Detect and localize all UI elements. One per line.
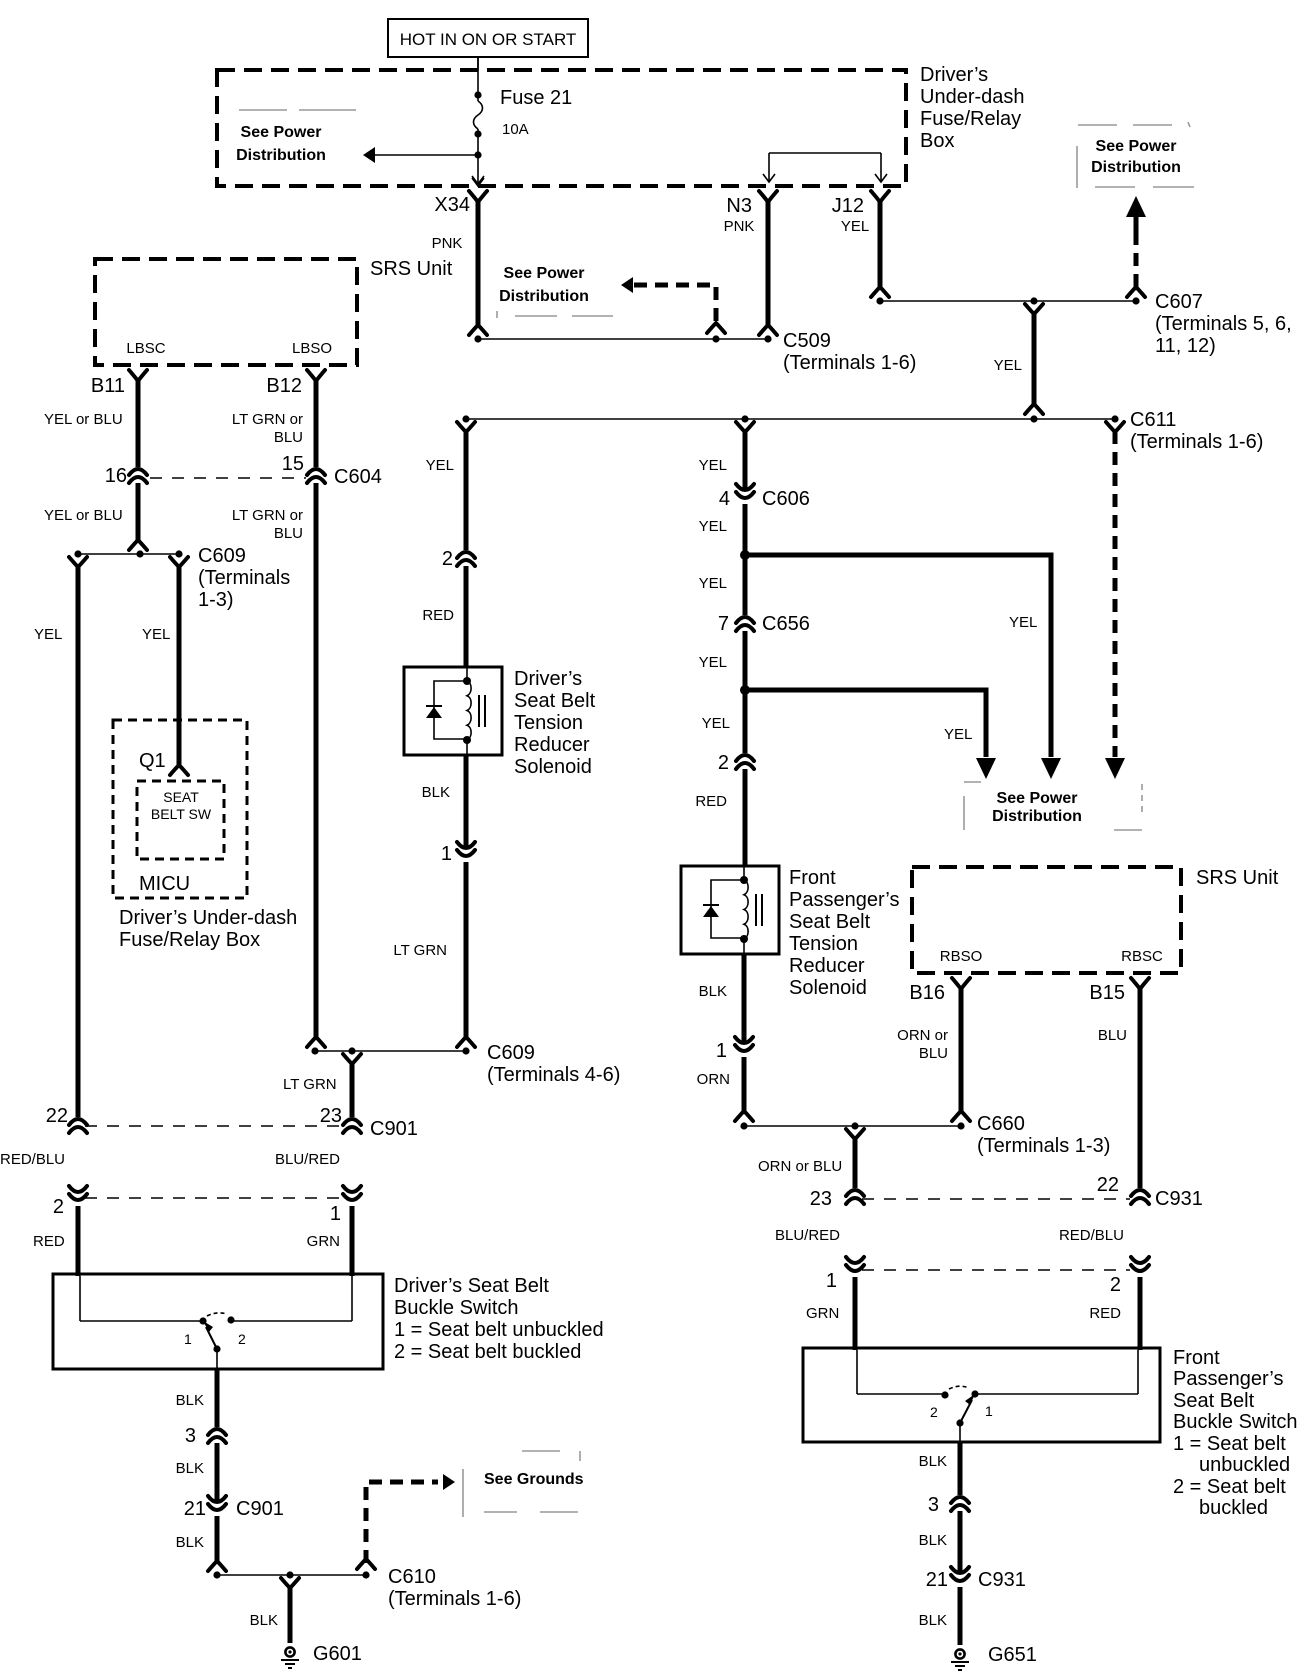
connector C656 pin 7: [718, 613, 810, 635]
svg-text:Reducer: Reducer: [789, 955, 865, 977]
svg-text:2: 2: [442, 548, 453, 570]
connector C607 node line: [876, 287, 1291, 357]
svg-text:GRN: GRN: [806, 1305, 839, 1322]
chevron J12 wire end at C607: [871, 287, 889, 297]
svg-text:1 = Seat belt unbuckled: 1 = Seat belt unbuckled: [394, 1319, 604, 1341]
svg-text:BLK: BLK: [919, 1612, 947, 1629]
svg-text:RED: RED: [422, 607, 454, 624]
svg-text:11, 12): 11, 12): [1155, 335, 1216, 357]
svg-text:Driver’s: Driver’s: [514, 668, 582, 690]
label SEAT BELT SW: [151, 789, 212, 822]
svg-text:1: 1: [716, 1040, 727, 1062]
label Front Passenger's Seat Belt Buckle Switch: [1173, 1347, 1298, 1519]
wire ORN or BLU to C931: [758, 1129, 864, 1188]
svg-text:7: 7: [718, 613, 729, 635]
connector C604 pin 16: [105, 465, 147, 487]
svg-text:RED: RED: [695, 793, 727, 810]
svg-text:RED: RED: [33, 1233, 65, 1250]
label BLU/RED (front): [775, 1227, 840, 1244]
label See Power Distribution (top right): [1091, 138, 1181, 176]
svg-text:Fuse/Relay Box: Fuse/Relay Box: [119, 929, 260, 951]
svg-text:BLK: BLK: [699, 983, 727, 1000]
wire BLK to G601: [250, 1578, 299, 1643]
label RED (front): [1089, 1305, 1121, 1322]
svg-text:B16: B16: [909, 982, 945, 1004]
wire 16 YEL or BLU (lower): [44, 483, 147, 550]
svg-text:C656: C656: [762, 613, 810, 635]
svg-text:G651: G651: [988, 1644, 1037, 1666]
wire RED into switch: [76, 1206, 81, 1276]
ghost reference marks (see grounds): [463, 1451, 580, 1517]
svg-text:1: 1: [441, 843, 452, 865]
dashed wire to See Power Distribution (mid): [621, 277, 725, 333]
connector pin 2 (driver row2): [53, 1186, 87, 1218]
switch position labels 1 2 (driver): [184, 1331, 246, 1347]
svg-text:LT GRN or: LT GRN or: [232, 507, 303, 524]
svg-text:BLK: BLK: [422, 784, 450, 801]
svg-text:RED: RED: [1089, 1305, 1121, 1322]
svg-text:C901: C901: [370, 1118, 418, 1140]
svg-text:Q1: Q1: [139, 750, 166, 772]
svg-text:Solenoid: Solenoid: [514, 756, 592, 778]
wire YEL (below C656): [699, 631, 745, 690]
connector C660 node line: [740, 1113, 1110, 1157]
svg-text:Seat Belt: Seat Belt: [1173, 1390, 1255, 1412]
wire YEL to Q1: [142, 557, 188, 775]
svg-text:BLU: BLU: [274, 525, 303, 542]
connector C611 node line: [462, 409, 1263, 453]
svg-text:1-3): 1-3): [198, 589, 234, 611]
svg-text:21: 21: [184, 1498, 206, 1520]
ground G601: [281, 1643, 362, 1668]
junction and branch YEL to power dist 2: [740, 685, 996, 779]
svg-text:C609: C609: [487, 1042, 535, 1064]
svg-text:Tension: Tension: [514, 712, 583, 734]
wire YEL (left tall): [34, 557, 87, 1117]
wire BLK (front lower): [919, 1587, 960, 1645]
svg-text:G601: G601: [313, 1643, 362, 1665]
svg-text:YEL or BLU: YEL or BLU: [44, 411, 123, 428]
connector C901 pin 21: [184, 1496, 284, 1520]
svg-text:YEL: YEL: [142, 626, 170, 643]
connector C606 pin 4: [719, 484, 810, 510]
pin label RBSO: [940, 948, 983, 965]
svg-text:10A: 10A: [502, 121, 529, 138]
svg-text:LT GRN: LT GRN: [393, 942, 447, 959]
connector C609 (terminals 1-3) node line: [74, 545, 290, 611]
svg-text:1: 1: [184, 1331, 192, 1347]
svg-text:PNK: PNK: [724, 218, 755, 235]
svg-text:YEL: YEL: [699, 654, 727, 671]
svg-text:YEL: YEL: [699, 575, 727, 592]
svg-text:2: 2: [238, 1331, 246, 1347]
svg-text:(Terminals 1-6): (Terminals 1-6): [1130, 431, 1263, 453]
svg-text:RED/BLU: RED/BLU: [0, 1151, 65, 1168]
terminal B12: [266, 370, 325, 397]
svg-text:Buckle Switch: Buckle Switch: [394, 1297, 519, 1319]
pin label RBSC: [1121, 948, 1163, 965]
svg-text:23: 23: [320, 1105, 342, 1127]
svg-text:LT GRN: LT GRN: [283, 1076, 337, 1093]
pin label LBSC: [126, 340, 165, 357]
svg-text:Tension: Tension: [789, 933, 858, 955]
connector C604 pin 15: [282, 453, 325, 483]
wire RED (front): [695, 769, 745, 866]
svg-text:BLK: BLK: [919, 1453, 947, 1470]
driver's seat belt buckle switch box: [53, 1274, 383, 1369]
driver buckle switch internals: [80, 1276, 352, 1369]
connector C604 dashed link: [150, 477, 306, 479]
svg-text:B11: B11: [91, 375, 125, 397]
wire GRN into switch: [350, 1206, 355, 1276]
svg-text:B12: B12: [266, 375, 302, 397]
label See Power Distribution (bottom right): [992, 790, 1082, 825]
connector pin 3 (front): [928, 1494, 969, 1516]
svg-text:Driver’s Seat Belt: Driver’s Seat Belt: [394, 1275, 549, 1297]
svg-text:BELT SW: BELT SW: [151, 806, 212, 822]
svg-text:Passenger’s: Passenger’s: [1173, 1368, 1283, 1390]
svg-text:C901: C901: [236, 1498, 284, 1520]
wire B12 LT GRN or BLU (tall): [232, 483, 325, 1047]
ground G651: [951, 1644, 1037, 1670]
svg-text:Solenoid: Solenoid: [789, 977, 867, 999]
svg-text:BLK: BLK: [919, 1532, 947, 1549]
dashed wire to See Grounds: [357, 1474, 455, 1569]
label GRN (driver): [307, 1233, 340, 1250]
svg-text:PNK: PNK: [432, 235, 463, 252]
svg-text:RED/BLU: RED/BLU: [1059, 1227, 1124, 1244]
svg-text:N3: N3: [726, 195, 752, 217]
svg-text:(Terminals 5, 6,: (Terminals 5, 6,: [1155, 313, 1292, 335]
wire BLK below front switch: [919, 1442, 960, 1495]
svg-text:16: 16: [105, 465, 127, 487]
internal bus to N3 and J12: [763, 153, 887, 182]
connector C901 pin 23: [320, 1105, 361, 1133]
svg-text:YEL or BLU: YEL or BLU: [44, 507, 123, 524]
svg-text:1 = Seat belt: 1 = Seat belt: [1173, 1433, 1286, 1455]
svg-text:BLU: BLU: [1098, 1027, 1127, 1044]
wire YEL (to C656): [699, 555, 745, 615]
svg-text:buckled: buckled: [1199, 1497, 1268, 1519]
svg-text:23: 23: [810, 1188, 832, 1210]
wire B15 BLU: [1098, 987, 1140, 1188]
connector pin 1 (front row2): [826, 1257, 864, 1292]
SRS unit box (right, dashed): [912, 867, 1181, 973]
wire X34 PNK: [432, 200, 478, 327]
svg-text:C610: C610: [388, 1566, 436, 1588]
MICU box (dashed): [113, 720, 247, 898]
svg-text:4: 4: [719, 488, 730, 510]
label Front Passenger's Seat Belt Tension Reducer Solenoid: [789, 867, 899, 999]
svg-text:2 = Seat belt: 2 = Seat belt: [1173, 1476, 1286, 1498]
wire BLK (driver lower): [176, 1516, 226, 1571]
dashed wire up to See Power Distribution (top right): [1126, 196, 1146, 290]
svg-text:22: 22: [1097, 1174, 1119, 1196]
svg-text:YEL: YEL: [841, 218, 869, 235]
svg-text:Front: Front: [1173, 1347, 1220, 1369]
svg-text:RBSO: RBSO: [940, 948, 983, 965]
svg-text:BLK: BLK: [176, 1460, 204, 1477]
connector C901 dashed link (row1): [85, 1125, 340, 1127]
label C901 (row1): [370, 1118, 418, 1140]
svg-text:(Terminals: (Terminals: [198, 567, 290, 589]
svg-text:Front: Front: [789, 867, 836, 889]
label Fuse 21 10A: [500, 87, 572, 138]
wire RED (driver): [422, 566, 466, 667]
svg-text:2: 2: [718, 752, 729, 774]
svg-text:22: 22: [46, 1105, 68, 1127]
svg-text:SRS Unit: SRS Unit: [370, 258, 453, 280]
svg-text:Fuse 21: Fuse 21: [500, 87, 572, 109]
svg-text:unbuckled: unbuckled: [1199, 1454, 1290, 1476]
label BLU/RED (driver): [275, 1151, 340, 1168]
svg-text:YEL: YEL: [1009, 614, 1037, 631]
svg-text:Driver’s Under-dash: Driver’s Under-dash: [119, 907, 297, 929]
svg-text:Reducer: Reducer: [514, 734, 590, 756]
terminal N3: [726, 191, 777, 217]
svg-text:Under-dash: Under-dash: [920, 86, 1025, 108]
dashed link (front row2): [862, 1269, 1130, 1271]
wire N3 PNK: [724, 200, 768, 327]
svg-text:Seat Belt: Seat Belt: [789, 911, 871, 933]
svg-text:J12: J12: [832, 195, 864, 217]
front buckle switch internals: [857, 1350, 1138, 1442]
wire from HOT box to fuse box: [477, 57, 479, 70]
connector C509 node line: [469, 325, 916, 374]
svg-text:C604: C604: [334, 466, 382, 488]
svg-text:Distribution: Distribution: [992, 808, 1082, 825]
connector pin 2 (front row2): [1110, 1257, 1149, 1296]
svg-text:YEL: YEL: [34, 626, 62, 643]
svg-text:BLU/RED: BLU/RED: [775, 1227, 840, 1244]
svg-text:YEL: YEL: [699, 518, 727, 535]
svg-text:Distribution: Distribution: [499, 288, 589, 305]
label See Power Distribution (mid): [499, 265, 589, 305]
svg-text:2: 2: [930, 1404, 938, 1420]
label RED/BLU (front): [1059, 1227, 1124, 1244]
power source box HOT IN ON OR START: [388, 19, 588, 57]
wire RED into front switch: [1138, 1277, 1143, 1350]
wire LT GRN to C901: [283, 1054, 361, 1117]
svg-text:Passenger’s: Passenger’s: [789, 889, 899, 911]
svg-text:BLK: BLK: [176, 1534, 204, 1551]
wire YEL (to conn 2): [702, 690, 745, 753]
wire BLK (driver mid): [176, 1443, 217, 1500]
wire B16 ORN or BLU: [897, 987, 970, 1121]
connector C610 node line: [213, 1566, 521, 1610]
label Driver's Under-dash Fuse/Relay Box (lower): [119, 907, 297, 951]
label Driver's Seat Belt Buckle Switch: [394, 1275, 604, 1363]
wire BLK (front mid): [919, 1511, 960, 1571]
label RED (driver): [33, 1233, 65, 1250]
svg-text:2: 2: [53, 1196, 64, 1218]
ghost reference marks (bottom right): [964, 782, 1142, 830]
svg-text:3: 3: [928, 1494, 939, 1516]
connector pin 1 (driver row2): [330, 1186, 361, 1225]
connector C609 (terminals 4-6) node line: [311, 1042, 620, 1086]
pin label LBSO: [292, 340, 332, 357]
svg-text:HOT IN ON OR START: HOT IN ON OR START: [400, 30, 577, 49]
terminal B15: [1089, 978, 1149, 1004]
label Driver's Seat Belt Tension Reducer Solenoid: [514, 668, 596, 778]
svg-text:C606: C606: [762, 488, 810, 510]
wire YEL from C611 (driver): [426, 422, 475, 550]
wire GRN into front switch: [853, 1277, 858, 1350]
svg-text:Distribution: Distribution: [1091, 159, 1181, 176]
label SRS Unit (right): [1196, 867, 1279, 889]
svg-text:(Terminals 4-6): (Terminals 4-6): [487, 1064, 620, 1086]
label SRS Unit (left): [370, 258, 453, 280]
svg-text:LT GRN or: LT GRN or: [232, 411, 303, 428]
wire BLK (front solenoid): [699, 954, 744, 1041]
svg-text:1: 1: [330, 1203, 341, 1225]
connector C931 pin 23: [810, 1188, 864, 1210]
terminal J12: [832, 191, 889, 217]
connector 1 C660 (front): [716, 1037, 753, 1062]
arrow to See Power Distribution (left): [363, 147, 478, 163]
svg-text:See Power: See Power: [504, 265, 585, 282]
svg-text:See Power: See Power: [997, 790, 1078, 807]
svg-text:Distribution: Distribution: [236, 147, 326, 164]
ghost reference marks (top right): [1077, 122, 1194, 188]
terminal X34: [434, 178, 487, 216]
svg-text:See Power: See Power: [241, 124, 322, 141]
svg-text:C509: C509: [783, 330, 831, 352]
svg-text:C611: C611: [1130, 409, 1176, 431]
svg-text:1: 1: [985, 1403, 993, 1419]
label GRN (front): [806, 1305, 839, 1322]
svg-text:ORN or BLU: ORN or BLU: [758, 1158, 842, 1175]
connector 2 C660 (front): [718, 752, 754, 774]
front passenger's seat belt tension reducer solenoid: [681, 866, 779, 954]
svg-text:SRS Unit: SRS Unit: [1196, 867, 1279, 889]
wire YEL (below C606): [699, 504, 745, 555]
connector C931 dashed link (row1): [862, 1198, 1130, 1200]
svg-text:1: 1: [826, 1270, 837, 1292]
wire YEL from C607 to C611: [994, 304, 1043, 414]
wire J12 YEL: [841, 200, 880, 288]
svg-text:2: 2: [1110, 1274, 1121, 1296]
svg-text:(Terminals 1-3): (Terminals 1-3): [977, 1135, 1110, 1157]
svg-text:See Grounds: See Grounds: [484, 1471, 584, 1488]
svg-text:Fuse/Relay: Fuse/Relay: [920, 108, 1021, 130]
svg-text:Seat Belt: Seat Belt: [514, 690, 596, 712]
svg-text:YEL: YEL: [426, 457, 454, 474]
svg-text:LBSC: LBSC: [126, 340, 165, 357]
svg-text:MICU: MICU: [139, 873, 190, 895]
svg-text:ORN: ORN: [697, 1071, 730, 1088]
label C931 (row1): [1155, 1188, 1203, 1210]
svg-text:BLK: BLK: [250, 1612, 278, 1629]
driver's seat belt tension reducer solenoid: [404, 667, 502, 755]
svg-text:YEL: YEL: [944, 726, 972, 743]
junction and branch YEL to power dist 1: [740, 550, 1061, 779]
dashed link (row2): [85, 1197, 340, 1199]
wire BLK (driver solenoid): [422, 755, 466, 846]
connector C901 pin 22: [46, 1105, 87, 1133]
svg-text:BLU/RED: BLU/RED: [275, 1151, 340, 1168]
svg-text:SEAT: SEAT: [163, 789, 199, 805]
wire BLK below driver switch: [176, 1369, 217, 1427]
svg-text:LBSO: LBSO: [292, 340, 332, 357]
wire B11 YEL or BLU: [44, 379, 138, 467]
svg-text:YEL: YEL: [994, 357, 1022, 374]
wire LT GRN (driver): [393, 862, 475, 1047]
svg-text:See Power: See Power: [1096, 138, 1177, 155]
wire B12 LT GRN or BLU (upper): [232, 379, 316, 467]
wire YEL from C611 (front): [699, 422, 754, 488]
switch position labels 2 1 (front): [930, 1403, 993, 1420]
dashed wire C611 to See Power Distribution (right): [1105, 422, 1125, 779]
svg-text:C660: C660: [977, 1113, 1025, 1135]
svg-text:BLU: BLU: [274, 429, 303, 446]
connector 2 C609 (driver): [442, 548, 475, 570]
svg-text:YEL: YEL: [699, 457, 727, 474]
label RED/BLU (driver): [0, 1151, 65, 1168]
svg-text:RBSC: RBSC: [1121, 948, 1163, 965]
svg-text:ORN or: ORN or: [897, 1027, 948, 1044]
svg-text:GRN: GRN: [307, 1233, 340, 1250]
wire ORN (front): [697, 1057, 753, 1121]
svg-text:3: 3: [185, 1425, 196, 1447]
svg-text:B15: B15: [1089, 982, 1125, 1004]
label C604: [334, 466, 382, 488]
svg-text:BLK: BLK: [176, 1392, 204, 1409]
svg-text:(Terminals 1-6): (Terminals 1-6): [783, 352, 916, 374]
svg-text:X34: X34: [434, 194, 470, 216]
label See Grounds: [484, 1471, 584, 1488]
svg-text:C607: C607: [1155, 291, 1203, 313]
label MICU: [139, 873, 190, 895]
terminal B16: [909, 978, 970, 1004]
ghost reference marks in fuse box: [239, 109, 356, 111]
fuse F21 element: [472, 57, 484, 184]
svg-text:C931: C931: [978, 1569, 1026, 1591]
svg-text:BLU: BLU: [919, 1045, 948, 1062]
label Driver's Under-dash Fuse/Relay Box: [920, 64, 1025, 152]
svg-text:C931: C931: [1155, 1188, 1203, 1210]
svg-text:YEL: YEL: [702, 715, 730, 732]
connector C931 pin 22: [1097, 1174, 1149, 1204]
svg-text:Buckle Switch: Buckle Switch: [1173, 1411, 1298, 1433]
connector pin 3 (driver): [185, 1425, 226, 1447]
svg-text:(Terminals 1-6): (Terminals 1-6): [388, 1588, 521, 1610]
SRS unit box (left, dashed): [95, 259, 357, 365]
svg-text:Box: Box: [920, 130, 954, 152]
svg-text:Driver’s: Driver’s: [920, 64, 988, 86]
ghost reference marks (mid): [497, 311, 613, 318]
connector C931 pin 21: [926, 1567, 1026, 1591]
terminal B11: [91, 370, 147, 397]
svg-text:21: 21: [926, 1569, 948, 1591]
svg-text:2 = Seat belt buckled: 2 = Seat belt buckled: [394, 1341, 581, 1363]
connector 1 C609 (driver): [441, 842, 475, 865]
seat belt switch box (dashed): [137, 781, 224, 859]
label See Power Distribution (fuse box): [236, 124, 326, 164]
svg-text:C609: C609: [198, 545, 246, 567]
svg-text:15: 15: [282, 453, 304, 475]
label Q1: [139, 750, 166, 772]
front passenger's seat belt buckle switch box: [803, 1348, 1160, 1442]
driver's under-dash fuse/relay box (dashed): [217, 70, 906, 186]
